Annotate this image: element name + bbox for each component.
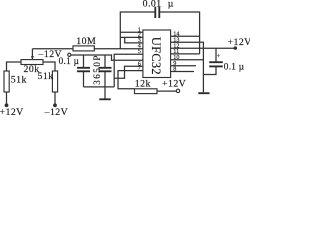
capacitor C3 right wire down to pin14/pin11 vertical [160,12,200,54]
svg-text:UFC32: UFC32 [149,37,163,75]
svg-text:7: 7 [138,65,141,72]
wire: pin1 dropper from main wire [120,31,142,33]
output terminal +12V open circle [176,89,179,92]
wire: pin2-pin3 jumper [120,36,142,38]
ground right [198,92,209,94]
potentiometer RP 20k wiper arrow [31,49,33,58]
op-amp U1 UFC32 box [143,30,171,78]
wire: R1 bottom lead [6,92,8,105]
wire: pin6 route [114,66,142,78]
svg-text:0.1 µ: 0.1 µ [224,61,245,71]
svg-text:0.1 µ: 0.1 µ [59,56,80,66]
wire: 12k to output terminal [157,90,177,92]
svg-text:12k: 12k [135,79,151,90]
wire: R2 bottom lead [54,92,56,105]
wire: caps bottom rail [84,86,115,88]
capacitor C2 bottom lead down to ground [104,72,106,99]
svg-text:3650P: 3650P [92,54,102,85]
wire: pin5 dropper [114,54,142,87]
wire: pin7 route to 12k [118,71,143,89]
svg-text:+: + [217,54,221,60]
pin 12 +12V rail [171,47,238,49]
svg-text:51k: 51k [38,71,54,82]
pin 13 stub and vertical to pin 10 [171,42,204,92]
input terminal open circle [68,53,71,56]
svg-text:+12V: +12V [162,78,186,89]
capacitor C1 bottom lead [83,72,85,87]
svg-text:+12V: +12V [0,107,24,115]
svg-text:+12V: +12V [228,37,251,48]
svg-text:5: 5 [138,48,141,55]
capacitor C1 plates [77,67,90,69]
svg-text:10M: 10M [76,36,96,47]
node +12V rail dot [234,46,237,49]
capacitor C4 plates [209,61,223,63]
svg-text:µ: µ [168,0,174,10]
wire: main signal wire from pot wiper to IC pin 4 [32,48,142,50]
capacitor C3 0.01u left wire [120,12,154,49]
resistor R1 51k [4,71,9,92]
capacitor C1 0.1u top lead [83,55,85,67]
capacitor C2 plates [99,67,112,69]
pin 14 stub [171,35,200,37]
pin 11 stub [171,53,200,55]
ground left [99,98,110,100]
svg-text:11: 11 [173,48,179,55]
potentiometer RP 20k body [21,60,43,65]
resistor R3 10M [73,46,94,51]
capacitor C4 0.1u polarized top lead [215,48,217,61]
pin 8 stub to ground [171,71,195,73]
node +12V terminal dot [5,103,9,107]
node -12V terminal dot [53,103,57,107]
wire: pot right lead [43,62,55,71]
capacitor C4 bottom lead [203,67,216,75]
resistor R4 12k [135,89,158,94]
capacitor C2 3650P top lead [104,55,106,67]
wire: lower wire from input terminal to IC unlabeled pin [71,55,143,60]
wire: pot left lead [7,62,22,71]
capacitor C3 plates [154,7,156,18]
pin 9 stub jumper to pin 8 [171,65,197,67]
resistor R2 51k [52,71,57,92]
svg-text:8: 8 [173,66,176,73]
svg-text:51k: 51k [11,75,27,86]
svg-text:–12V: –12V [44,107,69,115]
